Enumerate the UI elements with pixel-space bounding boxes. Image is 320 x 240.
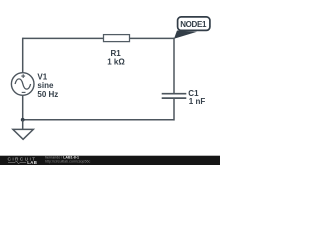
svg-text:1 kΩ: 1 kΩ	[107, 58, 125, 67]
wire left vertical upper segment	[22, 38, 24, 73]
svg-text:LAB: LAB	[27, 160, 37, 165]
svg-text:R1: R1	[110, 49, 121, 58]
wire left vertical lower segment	[22, 95, 24, 120]
node NODE1 flag	[174, 17, 210, 39]
watermark bar	[0, 156, 220, 165]
wire top-right horizontal segment	[130, 37, 175, 39]
resistor R1	[104, 35, 130, 67]
ground	[13, 120, 33, 140]
wire right vertical upper segment	[173, 38, 175, 94]
svg-text:1 nF: 1 nF	[189, 97, 206, 106]
capacitor C1	[162, 89, 206, 106]
svg-text:http://circuitlab.com/csqe56c: http://circuitlab.com/csqe56c	[45, 159, 91, 163]
wire bottom horizontal segment	[23, 119, 174, 121]
wire right vertical lower segment	[173, 98, 175, 120]
wire top-left horizontal segment	[23, 37, 104, 39]
junction dot	[21, 118, 25, 122]
voltage source V1	[11, 73, 58, 99]
svg-text:NODE1: NODE1	[180, 20, 207, 29]
svg-text:50 Hz: 50 Hz	[37, 90, 58, 99]
